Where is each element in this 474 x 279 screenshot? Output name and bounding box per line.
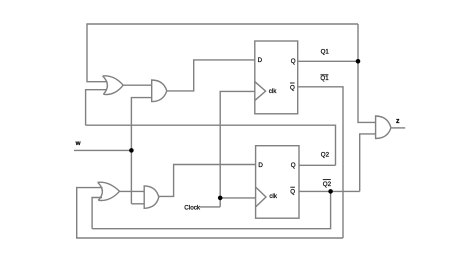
wire OR1 bottom input riser [86, 90, 107, 126]
wire clk1 input from clock riser [220, 91, 255, 206]
wire bottom outer feedback to OR2 top input [77, 188, 343, 238]
wire Q1 output to node [298, 60, 358, 62]
svg-text:w: w [75, 140, 81, 147]
svg-text:Q2: Q2 [323, 181, 332, 188]
svg-text:Q: Q [291, 58, 296, 65]
wire OR1 output to AND1 [123, 84, 152, 86]
junction dot clock node [218, 196, 223, 201]
svg-text:clk: clk [269, 88, 277, 95]
wire right vertical from top line to Z gate top input [358, 24, 376, 122]
and-gate G5 output Z [376, 116, 391, 139]
svg-text:Q: Q [290, 188, 295, 195]
wire Q2bar output [299, 190, 360, 192]
wire bottom inner feedback from Q2bar node [92, 191, 331, 228]
svg-text:D: D [258, 162, 263, 169]
svg-text:z: z [396, 118, 400, 125]
svg-text:Q1: Q1 [321, 48, 330, 55]
wire Z gate bottom input riser to Q2bar line [360, 134, 376, 192]
wire Q1bar output and right drop [298, 87, 343, 238]
svg-text:clk: clk [269, 193, 277, 200]
junction dot Q2bar node [328, 189, 333, 194]
wire OR2 bottom input riser [92, 198, 102, 229]
and-gate G4 [144, 186, 159, 208]
wire top feedback line from Q1 node to OR1 top input [87, 24, 358, 82]
svg-text:Q1: Q1 [320, 75, 329, 82]
flip-flop U1 clk triangle [255, 82, 266, 101]
or-gate G1 [103, 76, 124, 95]
and-gate G2 [152, 80, 167, 102]
junction dot w node [129, 148, 134, 153]
wire AND2 bottom input from w riser [131, 203, 144, 205]
wire AND2 output to D2 [159, 165, 256, 197]
wire w input line [74, 149, 131, 151]
wire Clock stub [200, 206, 220, 208]
svg-text:Q: Q [290, 84, 295, 91]
svg-text:D: D [258, 57, 263, 64]
wire OR2 output to AND2 [120, 190, 145, 192]
flip-flop U2 clk triangle [256, 187, 266, 207]
wire mid line from Q2 to OR1 [86, 125, 336, 165]
or-gate G3 [98, 182, 120, 200]
junction dot Q1 node [356, 59, 361, 64]
svg-text:Q: Q [291, 162, 296, 169]
svg-text:Q2: Q2 [321, 151, 330, 158]
wire Z output [391, 127, 405, 129]
flip-flop U1 box [255, 41, 298, 114]
wire clk2 input [220, 197, 256, 199]
wire AND1 output to D1 [167, 60, 255, 91]
wire AND1 bottom input from w riser [131, 98, 151, 204]
wire Q2 output [299, 164, 336, 166]
svg-text:Clock: Clock [184, 204, 201, 211]
flip-flop U2 box [256, 146, 299, 219]
